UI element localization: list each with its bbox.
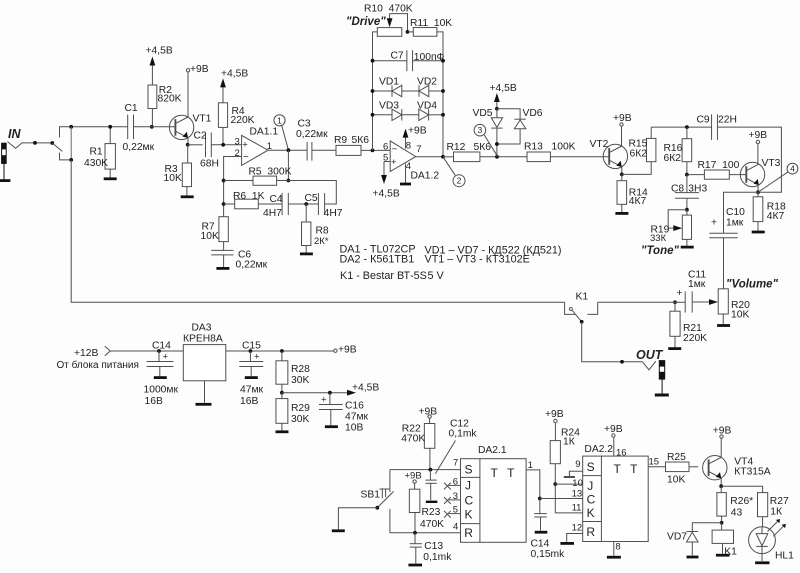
wire (emitter to R27) — [721, 486, 762, 492]
svg-text:K: K — [465, 507, 473, 521]
LED HL1 — [749, 527, 776, 554]
wire (pin2 stub) — [224, 157, 242, 217]
svg-text:+12В: +12В — [74, 348, 98, 359]
svg-text:R12: R12 — [447, 142, 466, 153]
wire (to DA2.2 pin13) — [540, 498, 583, 500]
wire (S line pin7) — [390, 469, 461, 471]
svg-text:DA1.2: DA1.2 — [411, 170, 440, 181]
svg-text:K1: K1 — [576, 291, 589, 302]
svg-text:+9В: +9В — [419, 406, 438, 417]
resistor R8 — [305, 204, 307, 222]
wire (switch to bypass rail) — [60, 153, 72, 160]
svg-text:VD1: VD1 — [379, 76, 399, 87]
svg-text:R17 100: R17 100 — [698, 160, 740, 171]
ground (C14b) — [535, 531, 548, 534]
node (R28 tap) — [280, 349, 284, 353]
svg-text:47мк: 47мк — [345, 412, 369, 423]
capacitor C12 — [429, 470, 431, 480]
transistor VT4 — [703, 456, 727, 480]
node (feedback R6) — [222, 202, 226, 206]
svg-text:1000мк: 1000мк — [144, 384, 179, 395]
node 2 circle — [453, 175, 465, 187]
svg-text:OUT: OUT — [636, 348, 664, 362]
ground (R8) — [300, 252, 313, 255]
ground (R1) — [104, 177, 117, 180]
resistor R16 — [686, 127, 688, 139]
svg-text:5 V: 5 V — [428, 270, 445, 282]
svg-text:0,22мк: 0,22мк — [236, 260, 268, 271]
node 4 circle — [787, 163, 798, 174]
svg-text:0,22мк: 0,22мк — [296, 129, 328, 140]
svg-text:100K: 100K — [552, 142, 576, 153]
svg-text:2: 2 — [235, 148, 240, 159]
resistor R7 — [219, 217, 228, 242]
svg-text:VD5: VD5 — [473, 108, 493, 119]
svg-text:+: + — [254, 351, 260, 362]
svg-text:IN: IN — [8, 127, 21, 141]
+4,5V arrow (DA1.2 pin5) — [384, 161, 390, 163]
wire (node4 leader) — [758, 172, 788, 193]
svg-text:0,15mk: 0,15mk — [531, 549, 566, 560]
svg-text:15: 15 — [649, 456, 660, 467]
svg-text:7: 7 — [416, 144, 421, 155]
svg-text:10В: 10В — [345, 423, 363, 434]
svg-text:R25: R25 — [667, 452, 686, 463]
svg-text:SB1: SB1 — [361, 489, 381, 500]
svg-text:0,1mk: 0,1mk — [423, 552, 452, 563]
svg-text:9: 9 — [575, 459, 580, 470]
node (VD1 rail left) — [371, 89, 375, 93]
resistor R18 — [757, 192, 759, 197]
+9V terminal (VT2) — [620, 123, 623, 126]
svg-text:+4,5В: +4,5В — [221, 68, 248, 79]
ground (IN jack) — [0, 179, 10, 182]
wire (9V line) — [226, 350, 334, 352]
node (VT1 emitter) — [186, 143, 190, 147]
+9V arrow (DA1.2 pin8) — [405, 136, 407, 149]
ground (pin12) — [560, 542, 574, 545]
svg-text:K1 - Bestar ВТ-5S: K1 - Bestar ВТ-5S — [340, 270, 427, 282]
svg-text:1мк: 1мк — [688, 279, 706, 290]
svg-text:C2: C2 — [194, 130, 207, 141]
wire (C1 to VT1 base) — [134, 126, 176, 128]
wire (+12V line) — [110, 350, 183, 352]
wire (pin11 K) — [555, 484, 582, 513]
pin 3 stub (C nc) — [449, 499, 461, 501]
diode VD1 — [373, 90, 393, 92]
op-amp DA1.2 — [390, 141, 416, 172]
wire (C4-C5) — [288, 203, 318, 205]
svg-text:+4,5В: +4,5В — [490, 83, 517, 94]
svg-text:VD4: VD4 — [417, 100, 437, 111]
svg-text:5: 5 — [453, 505, 458, 516]
flip-flop DA2.1 — [461, 459, 527, 543]
ground (C13) — [408, 564, 422, 567]
svg-text:+9В: +9В — [545, 409, 564, 420]
svg-text:7: 7 — [453, 458, 458, 469]
wire (jack tip to switch) — [8, 142, 53, 149]
capacitor C1 — [127, 115, 129, 140]
svg-text:30K: 30K — [291, 414, 309, 425]
node (VD5 top) — [495, 107, 499, 111]
node (R16 top) — [685, 125, 689, 129]
pin 6 stub (J nc) — [449, 484, 461, 486]
ground (C15) — [245, 376, 258, 379]
resistor R5 — [224, 180, 253, 182]
svg-text:Т Т: Т Т — [614, 462, 641, 476]
ground (R19) — [681, 246, 694, 249]
node (R26 bottom) — [720, 521, 724, 525]
ground (VD7) — [687, 556, 699, 559]
potentiometer R19 — [668, 210, 687, 228]
svg-text:R6 1K: R6 1K — [233, 191, 265, 202]
diode VD4 — [402, 114, 419, 116]
svg-text:+: + — [321, 395, 327, 406]
resistor R26 — [720, 486, 722, 492]
node (C7 left) — [371, 59, 375, 63]
svg-text:4Н7: 4Н7 — [324, 208, 343, 219]
IN jack plug — [2, 143, 7, 163]
svg-text:+: + — [163, 351, 169, 362]
node (C11/R21) — [673, 300, 677, 304]
wire (C12 leader) — [435, 441, 455, 474]
resistor R2 — [151, 64, 153, 86]
+9V terminal (VT3) — [756, 140, 759, 143]
resistor R1 — [109, 127, 111, 144]
svg-text:R27: R27 — [770, 496, 789, 507]
svg-text:6К2: 6К2 — [664, 153, 682, 164]
node (C15 tap) — [249, 349, 253, 353]
pin 12 stub (R to ground) — [567, 534, 583, 542]
wire (node3 leader) — [484, 134, 497, 155]
ground (R14) — [615, 212, 628, 215]
svg-text:Т Т: Т Т — [491, 466, 518, 480]
wire (node1 leader) — [282, 125, 289, 150]
svg-text:470K: 470K — [401, 434, 425, 445]
node (R5 right) — [287, 179, 291, 183]
node (C8/R19) — [685, 208, 689, 212]
svg-text:43: 43 — [731, 507, 743, 518]
svg-text:+9В: +9В — [604, 424, 623, 435]
svg-text:DA2.1: DA2.1 — [478, 445, 507, 456]
svg-text:C14: C14 — [152, 341, 171, 352]
svg-text:3: 3 — [478, 125, 483, 135]
svg-text:−: − — [243, 151, 249, 162]
svg-text:КРЕН8А: КРЕН8А — [183, 333, 223, 344]
resistor R6 — [224, 203, 235, 205]
transistor VT3 — [740, 162, 764, 186]
svg-text:+4,5В: +4,5В — [373, 188, 400, 199]
voltage regulator DA3 — [183, 345, 226, 381]
ground (SB1) — [332, 529, 345, 532]
node (R12/R13 VD5 node) — [495, 155, 499, 159]
node 3 circle — [474, 124, 486, 136]
node 1 circle — [274, 115, 285, 126]
capacitor C15 — [249, 351, 251, 361]
wire (VT3 collector) — [757, 144, 759, 165]
svg-text:6: 6 — [383, 141, 388, 152]
ground (C14) — [154, 376, 167, 379]
resistor R24 — [554, 423, 556, 441]
node (VT3 emitter) — [756, 190, 760, 194]
svg-text:+: + — [677, 288, 683, 299]
wire (VT2 collector) — [621, 126, 623, 146]
ground (R29) — [276, 430, 289, 433]
resistor R3 — [187, 145, 189, 163]
+9V terminal (DA2.2 pin16) — [612, 434, 615, 437]
svg-text:VT2: VT2 — [590, 139, 609, 150]
ground (C16) — [325, 425, 338, 428]
svg-text:1К: 1К — [563, 436, 575, 447]
svg-text:3: 3 — [235, 136, 240, 147]
svg-text:VD6: VD6 — [523, 108, 543, 119]
node (VT2 emitter) — [620, 173, 624, 177]
wire (C3 to R9) — [312, 149, 336, 151]
svg-text:R13: R13 — [524, 142, 543, 153]
svg-text:3Н3: 3Н3 — [688, 184, 707, 195]
svg-text:−: − — [392, 144, 398, 155]
diode VD6 — [497, 109, 520, 119]
svg-text:VD3: VD3 — [379, 100, 399, 111]
node (R22/C12) — [429, 468, 433, 472]
potentiometer R20 — [718, 289, 728, 314]
+4,5V output arrow — [282, 392, 349, 394]
wire (DA1.1 output) — [268, 149, 307, 151]
svg-text:R: R — [464, 526, 473, 540]
capacitor C4 — [281, 193, 283, 215]
ground (K1 coil) — [716, 554, 730, 557]
svg-text:R1: R1 — [90, 147, 103, 158]
svg-text:16: 16 — [616, 447, 627, 458]
node (VT4 emitter) — [719, 484, 723, 488]
svg-text:+9В: +9В — [408, 125, 427, 136]
node (DA1.2 output) — [441, 155, 445, 159]
svg-text:430K: 430K — [84, 158, 108, 169]
resistor R12 — [443, 156, 454, 158]
+9V terminal (R24) — [554, 419, 557, 422]
wire (DA1.2 output) — [416, 156, 443, 158]
node (VD2 rail right) — [441, 89, 445, 93]
svg-text:C7: C7 — [391, 51, 404, 62]
svg-text:VD7: VD7 — [667, 531, 687, 542]
ground (C12) — [426, 501, 438, 503]
diode VD5 — [496, 109, 498, 118]
pin 1 output wire — [526, 470, 540, 499]
resistor R28 — [281, 351, 283, 361]
svg-text:DA3: DA3 — [192, 322, 212, 333]
svg-text:C5: C5 — [305, 193, 318, 204]
svg-text:R10 470K: R10 470K — [364, 4, 413, 15]
pin 5 stub (K nc) — [449, 513, 461, 515]
svg-text:8: 8 — [406, 141, 411, 152]
svg-text:3: 3 — [453, 491, 458, 502]
wire (VT3 emitter) — [757, 185, 759, 192]
svg-text:4: 4 — [453, 522, 458, 533]
ground (pin8) — [607, 556, 621, 559]
input switch contact drop — [60, 127, 128, 138]
svg-text:"Drive": "Drive" — [346, 16, 386, 28]
wire (bypass connector) — [70, 127, 72, 160]
svg-text:470K: 470K — [420, 519, 444, 530]
node (bypass lower) — [69, 158, 73, 162]
capacitor C8 — [686, 175, 688, 193]
resistor R4 — [222, 85, 224, 102]
LED arrows — [768, 520, 780, 532]
svg-text:820K: 820K — [158, 94, 182, 105]
svg-text:+4,5В: +4,5В — [352, 383, 379, 394]
wire (R line pin4) — [390, 532, 461, 534]
svg-text:0,1mk: 0,1mk — [449, 429, 478, 440]
ground (DA3) — [196, 403, 212, 406]
node (R24/pin10) — [553, 482, 557, 486]
svg-text:47мк: 47мк — [240, 384, 264, 395]
svg-text:C1: C1 — [125, 103, 138, 114]
svg-text:+9В: +9В — [405, 471, 422, 482]
svg-text:C13: C13 — [424, 541, 443, 552]
capacitor C3 — [306, 142, 308, 161]
capacitor C2 — [188, 144, 203, 146]
svg-text:S: S — [587, 460, 595, 474]
pin 9 stub (S) — [569, 471, 582, 476]
svg-text:DA1.1: DA1.1 — [250, 126, 279, 137]
+4,5V arrow (VD5/VD6) — [496, 100, 498, 109]
ground (OUT jack) — [655, 394, 669, 397]
resistor R27 — [758, 493, 768, 517]
node (R23/C13) — [413, 531, 417, 535]
svg-text:220K: 220K — [231, 115, 255, 126]
potentiometer R10 — [377, 28, 402, 37]
svg-text:C8: C8 — [671, 184, 684, 195]
resistor R29 — [281, 393, 283, 399]
svg-text:+9В: +9В — [190, 64, 209, 75]
svg-text:C4: C4 — [270, 194, 283, 205]
svg-text:C: C — [465, 494, 474, 508]
svg-text:220K: 220K — [683, 333, 707, 344]
ground (R3) — [181, 195, 194, 198]
OUT jack — [643, 361, 656, 370]
wire (left rail of drive block) — [373, 32, 378, 150]
svg-text:+9В: +9В — [749, 130, 768, 141]
svg-text:10K: 10K — [164, 173, 182, 184]
svg-text:R29: R29 — [291, 403, 310, 414]
svg-text:4: 4 — [790, 164, 795, 174]
svg-text:C16: C16 — [345, 401, 364, 412]
node (feedback R5) — [222, 179, 226, 183]
capacitor C10 — [724, 192, 759, 233]
ground (HL1) — [755, 561, 769, 564]
svg-text:30K: 30K — [291, 375, 309, 386]
wire (to VD7) — [692, 523, 721, 531]
node (SB1 pole) — [375, 506, 379, 510]
svg-text:C15: C15 — [242, 341, 261, 352]
node (R16/R17/C8) — [685, 173, 689, 177]
flip-flop DA2.2 — [583, 456, 649, 541]
capacitor C6 — [211, 249, 233, 251]
svg-text:VT1 – VT3 - КТ3102Е: VT1 – VT3 - КТ3102Е — [425, 254, 530, 266]
svg-text:13: 13 — [572, 489, 583, 500]
diode VD2 — [402, 90, 419, 92]
node (R2 bottom) — [150, 125, 154, 129]
wire (emitter VT1) — [187, 138, 189, 145]
svg-text:+9В: +9В — [713, 426, 732, 437]
capacitor C14 (0,15mk) — [539, 499, 541, 514]
svg-text:16В: 16В — [240, 396, 258, 407]
svg-text:100пФ: 100пФ — [414, 52, 445, 63]
node (jack contact) — [33, 141, 37, 145]
svg-text:VT1: VT1 — [193, 114, 212, 125]
transistor VT2 — [603, 144, 627, 168]
svg-text:КТ315А: КТ315А — [734, 467, 770, 478]
wire (C5 to output node) — [288, 181, 336, 205]
resistor R23 — [414, 483, 416, 489]
capacitor C16 — [329, 393, 331, 405]
svg-text:33К: 33К — [650, 233, 667, 244]
node (R28/R29 divider) — [280, 391, 284, 395]
svg-text:R28: R28 — [291, 364, 310, 375]
svg-text:VD2: VD2 — [417, 76, 437, 87]
+9V output terminal — [334, 349, 337, 352]
svg-text:C10: C10 — [726, 207, 745, 218]
wire (rail to node4) — [717, 127, 781, 192]
capacitor C7 — [373, 60, 407, 62]
svg-text:1мк: 1мк — [726, 217, 744, 228]
svg-text:От блока питания: От блока питания — [57, 359, 139, 371]
node (R4 to pin3) — [221, 143, 225, 147]
capacitor C9 — [711, 114, 713, 140]
svg-text:1: 1 — [528, 460, 533, 471]
resistor R21 — [674, 302, 676, 311]
svg-text:5К6: 5К6 — [474, 142, 492, 153]
svg-text:10K: 10K — [201, 231, 219, 242]
relay coil K1 — [721, 523, 723, 530]
+9V terminal (R22) — [428, 415, 431, 418]
resistor R15 — [647, 138, 656, 161]
svg-text:S: S — [465, 462, 473, 476]
svg-text:0,22мк: 0,22мк — [123, 142, 155, 153]
node (R1 tap) — [108, 125, 112, 129]
ground (R18) — [752, 231, 765, 234]
resistor R17 — [687, 174, 705, 176]
resistor R9 — [336, 145, 361, 155]
svg-text:8: 8 — [615, 541, 620, 552]
resistor R22 — [429, 418, 431, 423]
node (R10/R11) — [406, 30, 410, 34]
svg-text:J: J — [587, 479, 593, 493]
node (VD4 rail right) — [441, 113, 445, 117]
svg-text:1К: 1К — [770, 507, 782, 518]
node (bypass tap on input line) — [69, 125, 73, 129]
svg-text:10K: 10K — [731, 309, 749, 320]
node (K1 pole) — [580, 320, 584, 324]
svg-text:22Н: 22Н — [718, 115, 737, 126]
+9V terminal (VT1 collector) — [186, 69, 189, 72]
svg-text:R9: R9 — [334, 135, 347, 146]
svg-text:4К7: 4К7 — [767, 211, 785, 222]
transistor VT1 — [169, 115, 193, 139]
ground (R21) — [668, 347, 681, 350]
node (pin1/C14/pin13) — [538, 497, 542, 501]
wire (HL1 to ground) — [761, 554, 763, 561]
svg-text:+: + — [391, 157, 397, 168]
svg-text:10K: 10K — [667, 474, 685, 485]
resistor R25 — [666, 462, 690, 472]
wire (pin10 J) — [555, 483, 582, 485]
node (C16 tap) — [328, 391, 332, 395]
svg-text:C14: C14 — [531, 539, 550, 550]
wire (VT4 emitter) — [720, 478, 722, 486]
capacitor C13 — [414, 533, 416, 544]
svg-text:6К2: 6К2 — [630, 148, 648, 159]
